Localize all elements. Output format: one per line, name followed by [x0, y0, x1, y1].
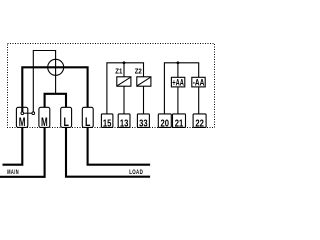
svg-text:-AA: -AA: [193, 76, 205, 87]
svg-text:+AA: +AA: [172, 76, 184, 87]
svg-text:LOAD: LOAD: [129, 169, 143, 176]
svg-text:Z1: Z1: [115, 66, 122, 75]
svg-text:20: 20: [161, 119, 170, 130]
svg-text:33: 33: [139, 119, 148, 130]
svg-text:M: M: [19, 117, 26, 129]
svg-text:21: 21: [175, 119, 184, 130]
svg-text:13: 13: [120, 119, 129, 130]
svg-text:L: L: [85, 117, 90, 129]
svg-text:15: 15: [103, 119, 112, 130]
svg-text:22: 22: [195, 119, 204, 130]
svg-text:L: L: [63, 117, 68, 129]
svg-text:MAIN: MAIN: [7, 169, 19, 176]
svg-text:M: M: [41, 117, 48, 129]
svg-text:Z2: Z2: [135, 66, 142, 75]
